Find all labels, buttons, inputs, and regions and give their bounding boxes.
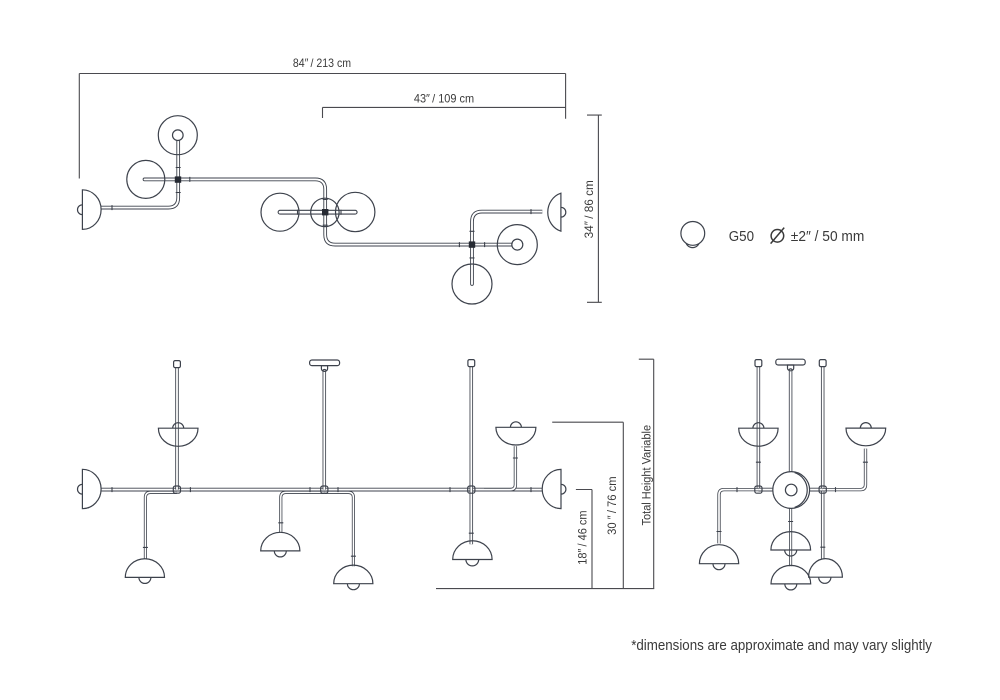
front dome 3 shade [334, 565, 373, 584]
front left dome bulb bump [77, 484, 82, 494]
side left arm down to dome L [719, 490, 758, 544]
plan wire: arm from left dome to riser and donut shade [101, 135, 178, 207]
side canopy collar [788, 365, 794, 371]
dimension 18in/46cm [576, 490, 592, 589]
side canopy plate [776, 359, 805, 365]
side dome M1 bulb bump [785, 550, 797, 556]
shade circle C [336, 192, 375, 231]
side big dome bulb circle [785, 484, 797, 496]
side big dome circle [773, 472, 810, 509]
plan wire: arm junction3 to donut2 [472, 243, 517, 247]
dimension 84in/213cm line [79, 74, 565, 179]
front dome 2 bulb bump [274, 551, 286, 557]
side dome L shade [699, 545, 738, 564]
front stem 2 [323, 371, 327, 490]
front bowl 1 bulb bump [173, 423, 184, 428]
side dome R bulb bump [819, 577, 831, 583]
front canopy collar [321, 366, 327, 372]
bulb G50 globe [681, 222, 705, 246]
diameter symbol [771, 228, 785, 244]
shade circle A [127, 160, 165, 198]
plan wire: main run circleA - junction1 - elbows - junction2 - junction3 [145, 179, 473, 244]
front dome 1 shade [125, 559, 164, 578]
front fitting stem3 [468, 486, 475, 493]
svg-text:84″ / 213 cm: 84″ / 213 cm [293, 56, 351, 70]
front dome 1 bulb bump [139, 577, 151, 583]
right dome shade (plan) [548, 193, 561, 231]
front right dome bulb bump [561, 484, 566, 494]
left dome shade (plan) [82, 190, 101, 230]
side dome M2 bulb bump [785, 584, 797, 590]
front fitting stem2 [321, 486, 328, 493]
side stem C top cap [819, 360, 826, 367]
front dome 4 shade [453, 541, 492, 560]
shade circle B [261, 193, 299, 231]
svg-text:±2″ / 50 mm: ±2″ / 50 mm [791, 228, 865, 245]
front left dome shade [82, 469, 101, 508]
side dome L bulb bump [713, 564, 725, 570]
front dome 4 bulb bump [466, 560, 479, 566]
svg-text:G50: G50 [729, 228, 754, 245]
front drop arm 1 [145, 492, 176, 558]
svg-text:18″ / 46 cm: 18″ / 46 cm [577, 510, 589, 564]
junction square 3 [469, 241, 475, 247]
side dome R shade [809, 559, 843, 578]
bulb G50 base [686, 234, 700, 248]
svg-text:*dimensions are approximate an: *dimensions are approximate and may vary… [631, 638, 932, 654]
shade circle D [452, 264, 492, 304]
front stem3 top cap [468, 360, 475, 367]
left dome bulb bump [78, 205, 83, 215]
front S-arm up to bowl 2 [484, 446, 515, 489]
svg-text:43″ / 109 cm: 43″ / 109 cm [414, 91, 474, 105]
donut shade 2 [497, 225, 537, 265]
side dome M2 shade [771, 565, 811, 584]
plan wire: cross arm circleB to circleC [280, 210, 355, 215]
side dome M1 shade [771, 532, 811, 550]
front bowl 2 shade [496, 427, 536, 445]
front connector ticks [112, 458, 531, 556]
canopy circle [311, 198, 339, 226]
front dome 2 shade [261, 532, 300, 551]
front fitting stem1 [173, 486, 180, 493]
plan wire: drop from junction3 to circleD [470, 245, 474, 284]
svg-text:Total Height Variable: Total Height Variable [641, 425, 653, 526]
front drop arm 3 [324, 492, 353, 566]
front dome 3 bulb bump [347, 584, 359, 590]
plan connector ticks [112, 168, 531, 258]
side stem B [789, 371, 793, 472]
dimension 30in/76cm [552, 422, 623, 588]
dimension 43in/109cm line [323, 107, 566, 118]
junction square 2 [322, 209, 328, 215]
side stem C [821, 367, 825, 559]
side bowl B shade [846, 428, 886, 446]
right dome bulb bump [561, 207, 566, 217]
donut shade 1 [158, 116, 197, 155]
front stem 1 [175, 368, 179, 490]
dimension bottom reference line [436, 588, 654, 590]
front right dome shade [542, 469, 561, 508]
side center drop tube to dome M2 [789, 508, 792, 566]
front canopy plate [310, 360, 340, 366]
svg-text:30 ″ / 76 cm: 30 ″ / 76 cm [607, 477, 619, 535]
dimension total height variable [639, 359, 654, 588]
side bowl A bulb bump [753, 423, 764, 428]
front main horizontal tube [101, 488, 542, 492]
side fitting stem A [755, 486, 762, 493]
dimension 34in/86cm vertical line [587, 115, 602, 302]
front stem 3 [470, 367, 474, 544]
side right arm up to bowl B [823, 449, 866, 490]
svg-text:34″ / 86 cm: 34″ / 86 cm [582, 180, 596, 238]
side stem A top cap [755, 360, 762, 367]
side bowl B bulb bump [860, 423, 871, 429]
side stem A [757, 367, 761, 490]
side fitting stem C [819, 486, 826, 493]
side connector ticks [717, 462, 868, 547]
front stem1 top cap [174, 361, 181, 368]
front bowl 1 shade [158, 428, 198, 446]
plan wire: riser junction3 to right dome [472, 212, 542, 245]
side bowl A shade [739, 428, 778, 446]
front drop arm 2 [281, 492, 325, 532]
front bowl 2 bulb bump [510, 422, 521, 428]
side big dome rim arc [795, 473, 808, 508]
junction square 1 [175, 176, 181, 182]
side axis tube between stems [758, 488, 822, 492]
